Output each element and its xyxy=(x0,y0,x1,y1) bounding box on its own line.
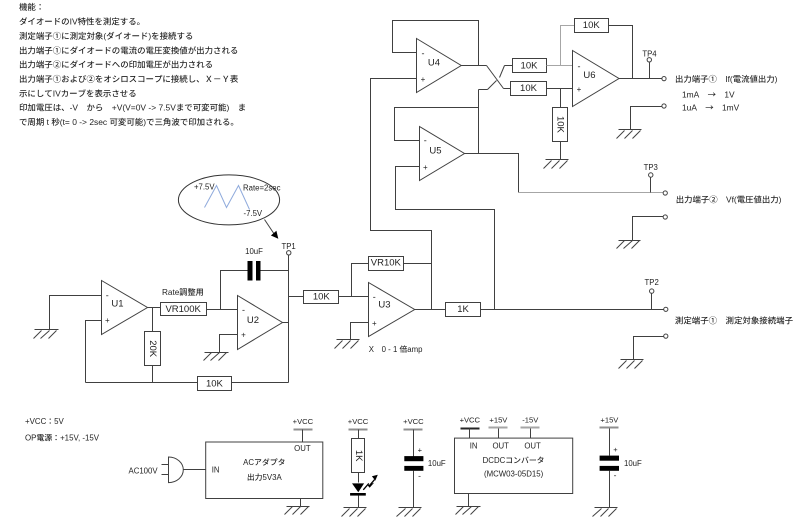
svg-text:出力端子① If(電流値出力): 出力端子① If(電流値出力) xyxy=(675,73,778,85)
label 1uA to 1mV xyxy=(682,102,740,114)
wire U5 output to crossing xyxy=(478,90,480,154)
label AC100V xyxy=(129,465,159,476)
svg-text:DCDCコンバータ: DCDCコンバータ xyxy=(483,455,545,466)
node TP1 vertical wire xyxy=(288,255,290,383)
label +VCC:5V xyxy=(25,416,65,427)
svg-text:10K: 10K xyxy=(206,379,224,390)
svg-text:+: + xyxy=(372,319,377,328)
wire bottom feedback left xyxy=(86,382,198,384)
svg-text:VR100K: VR100K xyxy=(165,304,201,315)
wire cap to ground xyxy=(609,471,611,508)
wire U1 + input xyxy=(86,321,102,383)
ground (U2 + input) xyxy=(204,353,229,361)
svg-text:-: - xyxy=(614,470,617,480)
power rail -15V (DCDC out) xyxy=(521,415,540,427)
svg-text:OUT: OUT xyxy=(294,444,311,453)
wire to 出力端子② xyxy=(519,192,664,194)
AC plug symbol xyxy=(162,457,184,483)
power rail +15V (DCDC out) xyxy=(489,415,509,427)
DCDC converter box xyxy=(455,438,573,493)
label 10uF (integrator cap) xyxy=(245,247,263,256)
wire U2 + input to ground xyxy=(220,335,238,353)
svg-text:1mA → 1V: 1mA → 1V xyxy=(682,89,735,101)
svg-text:TP3: TP3 xyxy=(644,163,658,172)
test point TP2 xyxy=(645,278,659,309)
resistor 1K xyxy=(446,303,481,317)
ground (measurement terminal) xyxy=(619,360,644,369)
svg-text:(MCW03-05D15): (MCW03-05D15) xyxy=(484,468,544,479)
label Rate調整用 xyxy=(162,286,204,298)
wire U1 output xyxy=(148,307,161,309)
svg-text:機能：: 機能： xyxy=(19,1,44,13)
wire junction up to feedback 10K xyxy=(561,26,575,66)
svg-text:-: - xyxy=(424,136,427,146)
wire U1 - input to ground xyxy=(50,296,102,330)
svg-text:U2: U2 xyxy=(247,315,259,326)
svg-text:出力端子②にダイオードへの印加電圧が出力される: 出力端子②にダイオードへの印加電圧が出力される xyxy=(19,59,213,71)
svg-text:+VCC: +VCC xyxy=(460,415,481,424)
op-amp U3 xyxy=(369,283,415,337)
svg-text:-7.5V: -7.5V xyxy=(244,208,263,219)
label -7.5V xyxy=(244,208,263,219)
ground terminal (measurement) xyxy=(634,334,668,360)
resistor 10K (U6 + to ground) xyxy=(553,108,568,142)
op-amp U1 xyxy=(102,281,148,335)
label 出力端子② Vf(電圧値出力) xyxy=(676,194,782,206)
resistor VR100K xyxy=(161,303,207,316)
wire +VCC to OUT xyxy=(302,430,304,443)
svg-text:+: + xyxy=(421,75,426,84)
op-amp U4 xyxy=(417,39,462,93)
wire U3 + input to ground xyxy=(351,323,369,340)
svg-text:+: + xyxy=(241,331,246,340)
wire DCDC to ground xyxy=(468,494,470,507)
svg-text:+7.5V: +7.5V xyxy=(194,182,215,193)
svg-text:OUT: OUT xyxy=(492,441,509,450)
svg-text:示にしてIVカーブを表示させる: 示にしてIVカーブを表示させる xyxy=(19,87,137,99)
op-amp U5 xyxy=(420,127,465,181)
ground (+VCC cap) xyxy=(397,508,422,517)
svg-text:U5: U5 xyxy=(429,146,441,157)
svg-text:+: + xyxy=(613,445,618,454)
svg-text:1K: 1K xyxy=(353,450,364,462)
ground terminal (output 1) xyxy=(631,104,667,130)
power rail +15V (bypass cap) xyxy=(600,415,620,427)
ground (output terminal 1) xyxy=(617,130,642,139)
svg-text:-: - xyxy=(418,471,421,481)
functional description text block xyxy=(19,1,246,128)
wire AC adapter to ground xyxy=(300,499,302,507)
wire 1K to measurement terminal xyxy=(481,309,664,311)
capacitor 10uF (+VCC bypass) xyxy=(404,446,446,481)
svg-text:出力5V3A: 出力5V3A xyxy=(247,472,283,483)
resistor 10K (to U6 + input) xyxy=(511,82,547,96)
svg-text:+: + xyxy=(577,85,582,94)
op-amp U6 xyxy=(573,51,620,107)
resistor 1K (LED) xyxy=(352,439,365,473)
svg-text:10uF: 10uF xyxy=(624,459,642,468)
ground (U3 + input) xyxy=(335,340,360,349)
svg-text:X 0 - 1 倍amp: X 0 - 1 倍amp xyxy=(369,344,423,355)
wire U4 + input sense loop xyxy=(371,79,432,310)
svg-text:+15V: +15V xyxy=(489,415,508,424)
wire upper 10K to U6 - xyxy=(547,65,573,67)
terminal 出力端子② xyxy=(663,191,667,195)
svg-text:20K: 20K xyxy=(147,340,158,358)
wire U1 output junction down to 20K xyxy=(152,308,154,332)
wire into upper 10K xyxy=(505,65,513,67)
test point TP4 xyxy=(642,49,657,78)
svg-text:+: + xyxy=(418,446,423,455)
svg-text:で周期 t 秒(t= 0 -> 2sec 可変可能)で三角波: で周期 t 秒(t= 0 -> 2sec 可変可能)で三角波で印加される。 xyxy=(19,116,239,128)
label X 0-1 倍amp xyxy=(369,344,423,355)
terminal 測定端子① xyxy=(664,307,668,311)
svg-text:+15V: +15V xyxy=(600,415,619,424)
wire 1K to LED xyxy=(358,473,360,483)
svg-text:VR10K: VR10K xyxy=(371,258,402,269)
waveform balloon ellipse xyxy=(178,175,279,225)
ground (AC adapter) xyxy=(285,507,310,515)
wire U6 output xyxy=(619,78,664,80)
wire cap to ground xyxy=(413,471,415,508)
wire integrator cap left branch xyxy=(221,271,248,310)
wire U3 output xyxy=(415,309,446,311)
label 1mA to 1V xyxy=(682,89,735,101)
wire U2 output xyxy=(283,322,289,324)
wire U4 output xyxy=(462,65,487,67)
test point TP3 xyxy=(644,163,658,193)
arrow balloon to TP1 xyxy=(265,220,279,239)
wire into lower 10K xyxy=(504,88,511,90)
wire TP1 node to 10K xyxy=(289,296,304,298)
wire 10K to ground xyxy=(560,142,562,160)
label 出力端子① If(電流値出力) xyxy=(675,73,778,85)
svg-text:測定端子① 測定対象接続端子: 測定端子① 測定対象接続端子 xyxy=(675,315,794,327)
svg-text:TP4: TP4 xyxy=(642,49,657,58)
label +7.5V xyxy=(194,182,215,193)
svg-text:+VCC: +VCC xyxy=(293,417,314,426)
ground terminal (output 2) xyxy=(633,215,668,241)
wire U5 output xyxy=(465,154,519,193)
svg-text:OP電源：+15V, -15V: OP電源：+15V, -15V xyxy=(25,432,100,443)
wire plug to AC adapter xyxy=(184,469,206,471)
terminal 出力端子① xyxy=(662,77,666,81)
resistor 10K (positive feedback) xyxy=(198,377,232,391)
ground (U6 + divider) xyxy=(544,160,569,169)
power rail +VCC (LED) xyxy=(348,417,369,429)
LED D1 xyxy=(350,475,378,496)
wire VR10K to U3 output node xyxy=(404,263,432,265)
ground (DCDC) xyxy=(456,507,481,515)
power rail +VCC (bypass cap) xyxy=(403,417,424,429)
wire junction down to grounding 10K xyxy=(560,89,562,108)
label OP電源 xyxy=(25,432,100,443)
wire VR100K to U2 - input xyxy=(207,309,238,311)
svg-text:Rate調整用: Rate調整用 xyxy=(162,286,204,298)
svg-text:出力端子①にダイオードの電流の電圧変換値が出力される: 出力端子①にダイオードの電流の電圧変換値が出力される xyxy=(19,44,238,56)
resistor 10K (to U6 - input) xyxy=(513,59,547,73)
svg-text:ACアダプタ: ACアダプタ xyxy=(243,457,285,468)
svg-text:-: - xyxy=(106,291,109,301)
svg-text:+: + xyxy=(423,163,428,172)
label Rate=2sec xyxy=(243,183,281,194)
svg-text:-: - xyxy=(242,305,245,315)
svg-text:U1: U1 xyxy=(111,299,123,310)
svg-text:OUT: OUT xyxy=(524,441,541,450)
wire 20K to bottom node xyxy=(152,366,154,383)
svg-text:出力端子② Vf(電圧値出力): 出力端子② Vf(電圧値出力) xyxy=(676,194,782,206)
svg-text:ダイオードのIV特性を測定する。: ダイオードのIV特性を測定する。 xyxy=(19,16,145,28)
resistor 10K (input to U3) xyxy=(304,291,339,304)
wire U5 + sense loop xyxy=(396,167,495,310)
ground (+15V cap) xyxy=(593,508,618,517)
op-amp U2 xyxy=(238,296,283,350)
svg-text:-15V: -15V xyxy=(522,415,539,424)
label 測定端子① 測定対象接続端子 xyxy=(675,315,794,327)
capacitor 10uF (+15V bypass) xyxy=(600,445,642,480)
test point TP1 xyxy=(281,242,295,255)
resistor 20K xyxy=(145,332,161,366)
svg-text:1uA → 1mV: 1uA → 1mV xyxy=(682,102,740,114)
AC adapter box xyxy=(206,442,323,499)
triangle wave (blue) xyxy=(205,186,250,210)
wire lower 10K to U6 + xyxy=(547,88,573,90)
svg-text:10K: 10K xyxy=(521,60,539,71)
svg-text:10uF: 10uF xyxy=(245,247,263,256)
svg-text:+VCC: +VCC xyxy=(403,417,424,426)
wire +VCC to DCDC IN xyxy=(469,429,471,439)
power rail +VCC (DCDC in) xyxy=(460,415,481,428)
wire junction up to VR10K xyxy=(352,264,369,297)
svg-text:-: - xyxy=(422,49,425,59)
wire LED to ground xyxy=(358,496,360,508)
svg-text:+VCC：5V: +VCC：5V xyxy=(25,416,65,427)
svg-text:Rate=2sec: Rate=2sec xyxy=(243,183,281,194)
capacitor 10uF (integrator) xyxy=(248,261,261,281)
svg-text:+VCC: +VCC xyxy=(348,417,369,426)
svg-text:印加電圧は、-V から +V(V=0V -> 7.5Vまで可: 印加電圧は、-V から +V(V=0V -> 7.5Vまで可変可能) ま xyxy=(19,102,246,114)
wire 10K to U2 output node xyxy=(232,382,289,384)
wire +15V to cap xyxy=(609,429,611,456)
svg-text:10uF: 10uF xyxy=(428,459,446,468)
wire U5 feedback loop xyxy=(395,108,479,141)
wire 10K to U3 - input xyxy=(339,296,369,298)
svg-text:U3: U3 xyxy=(378,300,390,311)
wire +VCC to cap xyxy=(413,430,415,457)
resistor 10K (U6 feedback) xyxy=(575,19,609,33)
svg-text:IN: IN xyxy=(470,441,478,450)
svg-text:AC100V: AC100V xyxy=(129,465,159,476)
wire crossing diagonal with hop (U5 out to upper 10K) xyxy=(479,66,505,90)
wire cap right to TP1 node xyxy=(261,270,289,272)
svg-text:U6: U6 xyxy=(583,70,595,81)
wire +VCC to 1K xyxy=(358,430,360,439)
svg-text:10K: 10K xyxy=(555,116,566,134)
ground (output terminal 2) xyxy=(617,241,641,249)
ground (U1 inverting input) xyxy=(34,330,59,339)
svg-text:TP1: TP1 xyxy=(281,242,295,251)
resistor VR10K (U3 feedback) xyxy=(369,257,404,271)
wire U4 feedback loop xyxy=(393,21,479,66)
svg-text:-: - xyxy=(373,292,376,302)
svg-text:-: - xyxy=(578,61,581,71)
svg-text:測定端子①に測定対象(ダイオード)を接続する: 測定端子①に測定対象(ダイオード)を接続する xyxy=(19,30,193,42)
svg-text:TP2: TP2 xyxy=(645,278,659,287)
svg-text:出力端子①および②をオシロスコープに接続し、Ｘ－Ｙ表: 出力端子①および②をオシロスコープに接続し、Ｘ－Ｙ表 xyxy=(19,73,239,85)
svg-text:U4: U4 xyxy=(428,58,440,69)
svg-text:10K: 10K xyxy=(313,291,331,302)
svg-text:10K: 10K xyxy=(520,83,538,94)
wire crossing diagonal (U4 out to lower 10K) xyxy=(487,66,504,89)
ground (LED) xyxy=(342,508,367,517)
power rail +VCC (AC adapter) xyxy=(293,417,314,429)
wire +15V stub xyxy=(498,429,500,439)
svg-text:IN: IN xyxy=(212,465,220,474)
svg-text:1K: 1K xyxy=(457,304,469,315)
wire feedback 10K to U6 output xyxy=(609,26,633,79)
wire -15V stub xyxy=(530,429,532,439)
svg-text:10K: 10K xyxy=(583,20,601,31)
svg-text:+: + xyxy=(105,316,110,325)
